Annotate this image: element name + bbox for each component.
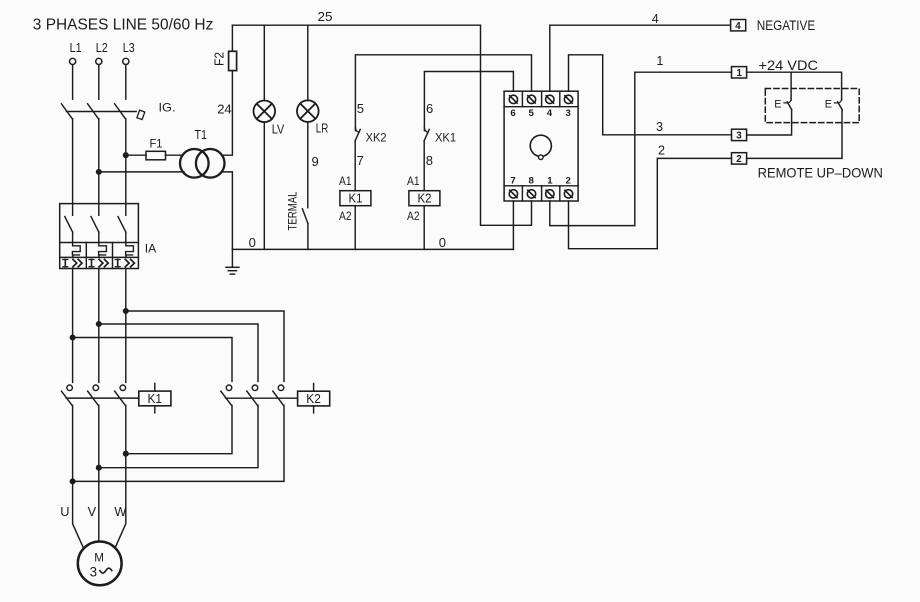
- coil box K1 (contactor): [139, 383, 171, 412]
- wire IG pole3 to breaker: [125, 119, 127, 204]
- wire bus25 to lamp LR: [307, 25, 309, 100]
- wire K2 coil to 0 bus: [423, 206, 425, 250]
- lamp LR: [297, 100, 328, 135]
- wire bus25 to relay terminal 8: [481, 25, 532, 225]
- terminal block 3: [732, 129, 747, 141]
- wire phase V breaker to K1 contact: [98, 269, 100, 383]
- svg-text:3: 3: [90, 565, 97, 580]
- relay U1 screw terminal 3: [564, 95, 572, 103]
- node junction K2-V: [97, 465, 102, 470]
- wire K2 pole2 bottom crossover to V: [99, 405, 258, 467]
- node junction K2-W: [124, 451, 129, 456]
- node L3: [123, 41, 135, 65]
- relay U1 screw terminal 5: [527, 95, 535, 103]
- node junction L2-T1: [97, 170, 102, 175]
- terminal block 4 NEGATIVE: [731, 17, 816, 33]
- svg-text:0: 0: [439, 235, 446, 250]
- wire relay terminal 7 to 0 bus: [512, 201, 514, 249]
- thermal contact TERMAL: [286, 191, 308, 230]
- fuse F2: [213, 51, 237, 70]
- svg-text:8: 8: [529, 175, 535, 186]
- svg-text:K1: K1: [349, 192, 363, 206]
- wire V to motor: [98, 405, 100, 541]
- net 0 bus: [232, 235, 513, 250]
- wire W to K2 pole3 top: [126, 311, 284, 381]
- svg-text:A1: A1: [339, 174, 352, 188]
- svg-text:4: 4: [735, 21, 741, 32]
- svg-text:V: V: [88, 504, 97, 519]
- svg-text:25: 25: [318, 9, 333, 24]
- terminal block 2: [732, 153, 883, 181]
- svg-text:4: 4: [652, 12, 659, 26]
- contactor K1 contacts: [61, 385, 138, 405]
- wire +24 branch to E switch left: [790, 72, 792, 100]
- wire E right to [2]: [747, 110, 842, 159]
- svg-text:IA: IA: [145, 242, 157, 256]
- wire L3 to F1: [126, 154, 146, 156]
- svg-text:E: E: [825, 99, 832, 111]
- wire L2 to switch: [98, 65, 100, 100]
- circuit breaker IA: [60, 204, 157, 269]
- coil K2: [407, 174, 440, 223]
- breaker IA thermal element pole 2: [99, 243, 107, 258]
- coil box K2 (contactor): [298, 384, 330, 413]
- wire thermal switch to 0 bus: [307, 223, 309, 249]
- svg-text:M: M: [94, 552, 104, 565]
- svg-text:24: 24: [217, 102, 232, 117]
- wire relay terminal 2 to [2]: [569, 158, 732, 248]
- svg-text:L2: L2: [96, 41, 108, 55]
- svg-text:LR: LR: [316, 122, 329, 136]
- switch E left: [774, 99, 791, 111]
- wire F1 to T1: [166, 154, 184, 156]
- wire phase U breaker to K1 contact: [72, 269, 74, 383]
- svg-text:IG.: IG.: [159, 101, 176, 115]
- wire phase W breaker to K1 contact: [125, 269, 127, 383]
- svg-text:5: 5: [357, 101, 364, 116]
- wire T1 secondary top to F2: [222, 71, 233, 156]
- node junction V to K2: [97, 322, 102, 327]
- svg-text:1: 1: [737, 68, 743, 79]
- node junction K2-U: [70, 479, 75, 484]
- svg-text:2: 2: [566, 175, 571, 186]
- svg-text:+24 VDC: +24 VDC: [759, 57, 819, 73]
- wire W to motor: [115, 405, 126, 548]
- svg-text:3 PHASES LINE 50/60 Hz: 3 PHASES LINE 50/60 Hz: [33, 16, 214, 33]
- svg-text:K2: K2: [418, 192, 432, 206]
- relay U1 screw terminal 2: [564, 190, 572, 198]
- relay U1 screw terminal 7: [509, 190, 517, 198]
- relay U1 screw terminal 1: [546, 190, 554, 198]
- wire IG pole2 to breaker: [98, 119, 100, 204]
- transformer T1: [180, 128, 225, 177]
- wire +24 VDC to remote switches: [747, 72, 842, 100]
- fuse F1: [146, 137, 166, 160]
- lamp LV: [253, 101, 284, 137]
- breaker IA thermal element pole 3: [126, 243, 134, 258]
- wire lamp LV to 0 bus: [263, 122, 265, 249]
- wire bus25 to lamp LV: [263, 25, 265, 100]
- wire XK1 to K2 coil: [423, 141, 425, 191]
- wire node6 horizontal (branch K2 to relay terminal 6): [424, 72, 513, 131]
- motor M: [78, 542, 122, 586]
- remote box (dashed): [765, 89, 859, 123]
- contactor K2 contacts: [221, 385, 298, 405]
- svg-text:XK2: XK2: [366, 131, 387, 145]
- svg-text:2: 2: [736, 154, 742, 165]
- svg-text:REMOTE UP–DOWN: REMOTE UP–DOWN: [758, 164, 883, 180]
- svg-text:3: 3: [736, 131, 742, 142]
- svg-text:7: 7: [510, 175, 515, 186]
- svg-text:6: 6: [426, 101, 433, 116]
- relay U1 screw terminal 4: [546, 95, 554, 103]
- svg-text:7: 7: [357, 153, 364, 168]
- node junction W to K2: [124, 309, 129, 314]
- wire U to K2 pole1 top: [73, 338, 232, 382]
- wire T1 secondary bottom to 0 bus: [222, 172, 233, 250]
- svg-text:3: 3: [566, 108, 571, 119]
- wire node5 horizontal (branch K1 to relay terminal 5): [355, 55, 531, 131]
- relay U1 screw terminal 8: [527, 190, 535, 198]
- wire K2 pole1 bottom crossover to W: [126, 405, 232, 453]
- wire L3 to switch: [125, 65, 127, 100]
- relay U1 screw terminal 6: [509, 95, 517, 103]
- svg-text:A2: A2: [339, 209, 352, 223]
- node L2: [96, 41, 108, 65]
- wire relay terminal 1 to [1] +24 VDC: [550, 72, 732, 225]
- wire V to K2 pole2 top: [99, 324, 258, 381]
- svg-text:A2: A2: [407, 209, 420, 223]
- svg-text:XK1: XK1: [435, 131, 456, 145]
- svg-text:NEGATIVE: NEGATIVE: [757, 17, 815, 33]
- wire relay terminal 4 to [4] NEGATIVE: [550, 25, 731, 91]
- svg-text:2: 2: [658, 144, 665, 158]
- ground: [226, 249, 239, 274]
- breaker IA magnetic trip pole 3: [115, 259, 134, 266]
- svg-text:1: 1: [656, 54, 663, 68]
- node junction L3-F1: [124, 153, 129, 158]
- svg-text:5: 5: [529, 108, 535, 119]
- svg-text:U: U: [60, 504, 69, 519]
- svg-text:A1: A1: [407, 174, 420, 188]
- svg-text:1: 1: [547, 175, 553, 186]
- wire U to motor: [73, 405, 84, 548]
- wire K1 coil to 0 bus: [354, 206, 356, 250]
- svg-text:E: E: [774, 99, 781, 111]
- svg-text:3: 3: [656, 120, 663, 134]
- wire relay terminal 3 to [3]: [569, 55, 732, 135]
- node junction U to K2: [70, 335, 75, 340]
- wire IG pole1 to breaker: [72, 119, 74, 204]
- breaker IA magnetic trip pole 2: [89, 259, 108, 266]
- main switch IG: [61, 101, 175, 120]
- svg-text:4: 4: [547, 108, 553, 119]
- terminal block 1 +24 VDC: [732, 57, 819, 79]
- svg-text:L1: L1: [70, 41, 82, 55]
- svg-text:F1: F1: [150, 137, 163, 151]
- relay module U1: [504, 91, 578, 201]
- node L1: [70, 41, 82, 65]
- contact XK1: [424, 127, 456, 144]
- switch E right: [825, 99, 842, 111]
- svg-text:9: 9: [312, 154, 319, 169]
- wire XK2 to K1 coil: [354, 141, 356, 191]
- svg-text:L3: L3: [123, 41, 135, 55]
- bus 25: [232, 9, 480, 25]
- wire K2 pole3 bottom crossover to U: [73, 405, 284, 481]
- svg-text:K2: K2: [306, 392, 321, 406]
- svg-text:6: 6: [510, 108, 515, 119]
- relay U1 knob: [530, 135, 551, 159]
- wire E left to [3]: [747, 110, 792, 135]
- svg-text:0: 0: [249, 235, 256, 250]
- contact XK2: [355, 127, 387, 144]
- svg-text:T1: T1: [195, 128, 208, 142]
- wire L2 to T1: [99, 171, 184, 173]
- breaker IA thermal element pole 1: [72, 243, 80, 258]
- svg-text:8: 8: [426, 153, 433, 168]
- svg-text:TERMAL: TERMAL: [286, 191, 300, 230]
- svg-text:K1: K1: [148, 392, 163, 406]
- coil K1: [339, 174, 371, 223]
- wire lamp LR to thermal switch: [307, 122, 309, 208]
- wire F2 to bus 25: [231, 25, 233, 51]
- svg-text:F2: F2: [213, 52, 227, 66]
- wire L1 to switch: [72, 65, 74, 100]
- breaker IA magnetic trip pole 1: [63, 259, 82, 266]
- svg-text:LV: LV: [272, 123, 285, 137]
